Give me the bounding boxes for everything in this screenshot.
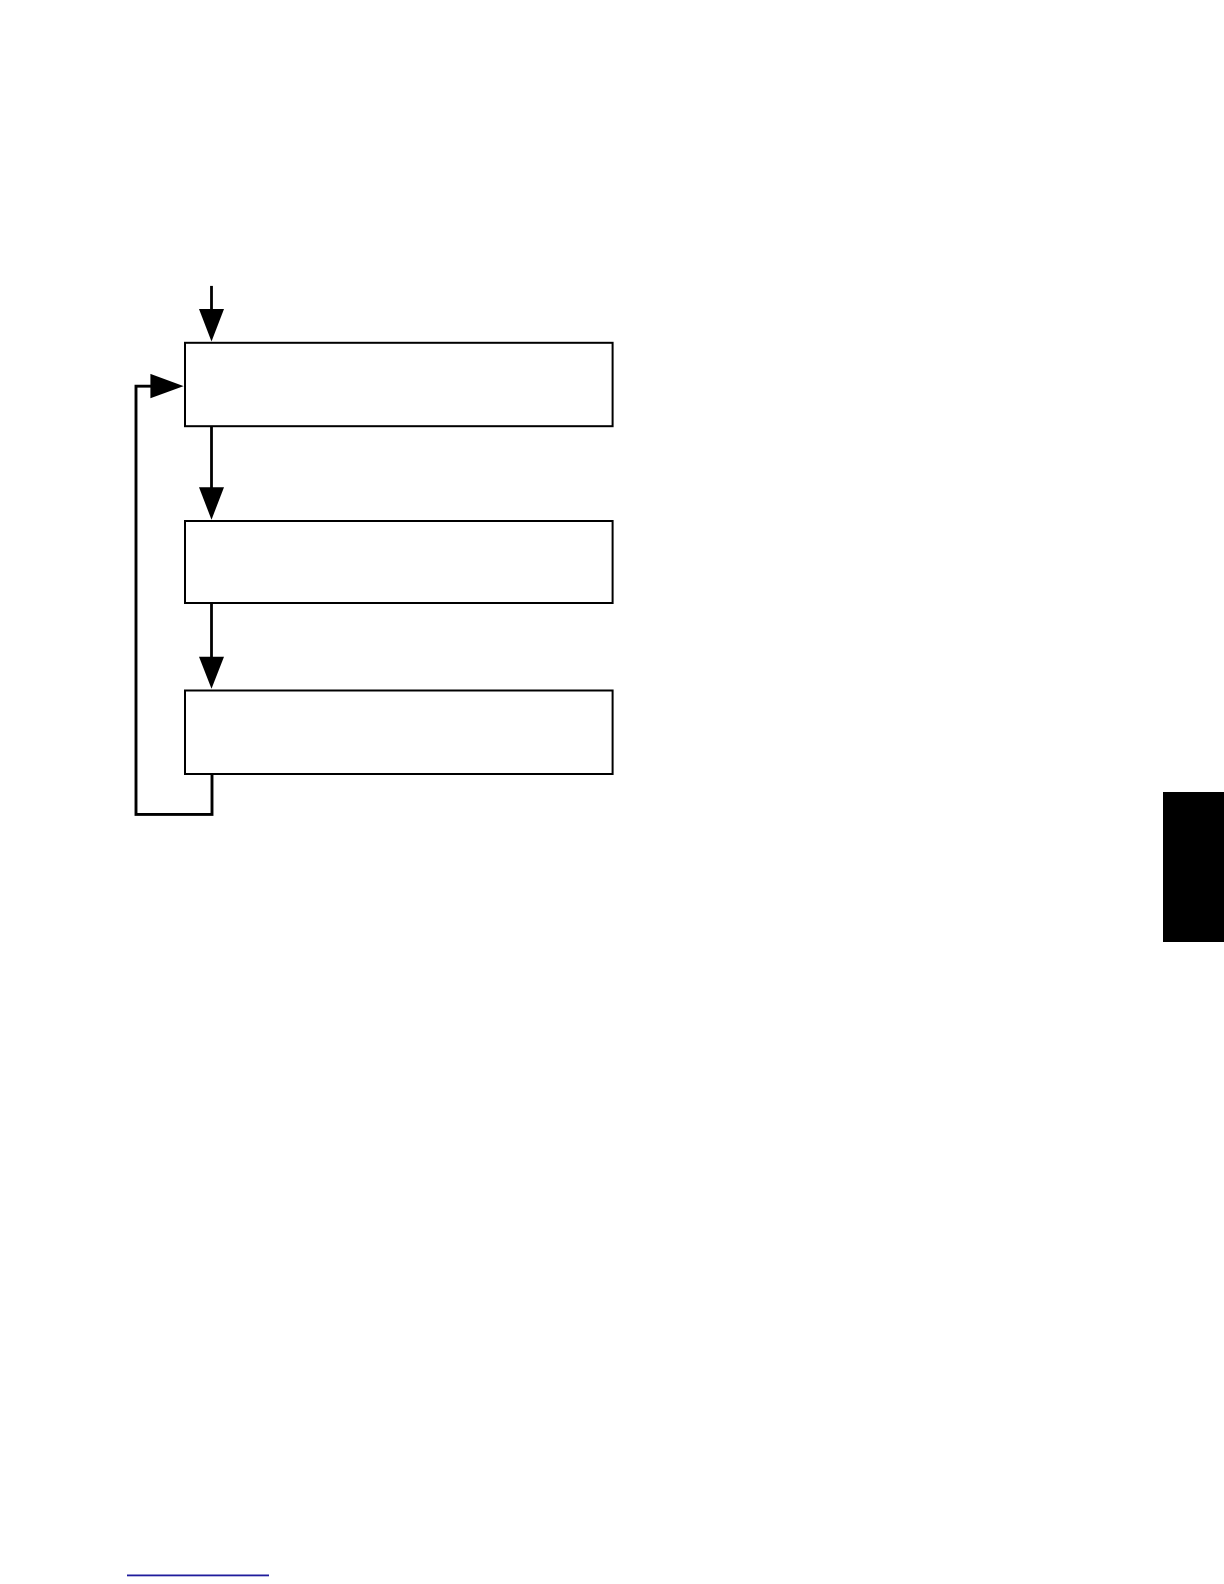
arrowhead into left side of box 1 — [150, 374, 183, 398]
wire: feedback loop from box 3 bottom to box 1 left — [136, 386, 212, 814]
arrowhead into top of box 3 — [199, 657, 224, 689]
process box 2 — [185, 521, 613, 603]
wire: arrow shaft box 1 to box 2 — [210, 427, 213, 490]
arrowhead into top of box 1 — [199, 309, 224, 342]
wire: arrow shaft box 2 to box 3 — [210, 604, 213, 659]
blue footer rule — [127, 1575, 269, 1577]
wire: entry arrow shaft into box 1 — [210, 286, 213, 312]
process box 1 — [185, 343, 613, 426]
arrowhead into top of box 2 — [199, 487, 224, 519]
black page-edge tab — [1163, 792, 1224, 942]
process box 3 — [185, 691, 613, 775]
